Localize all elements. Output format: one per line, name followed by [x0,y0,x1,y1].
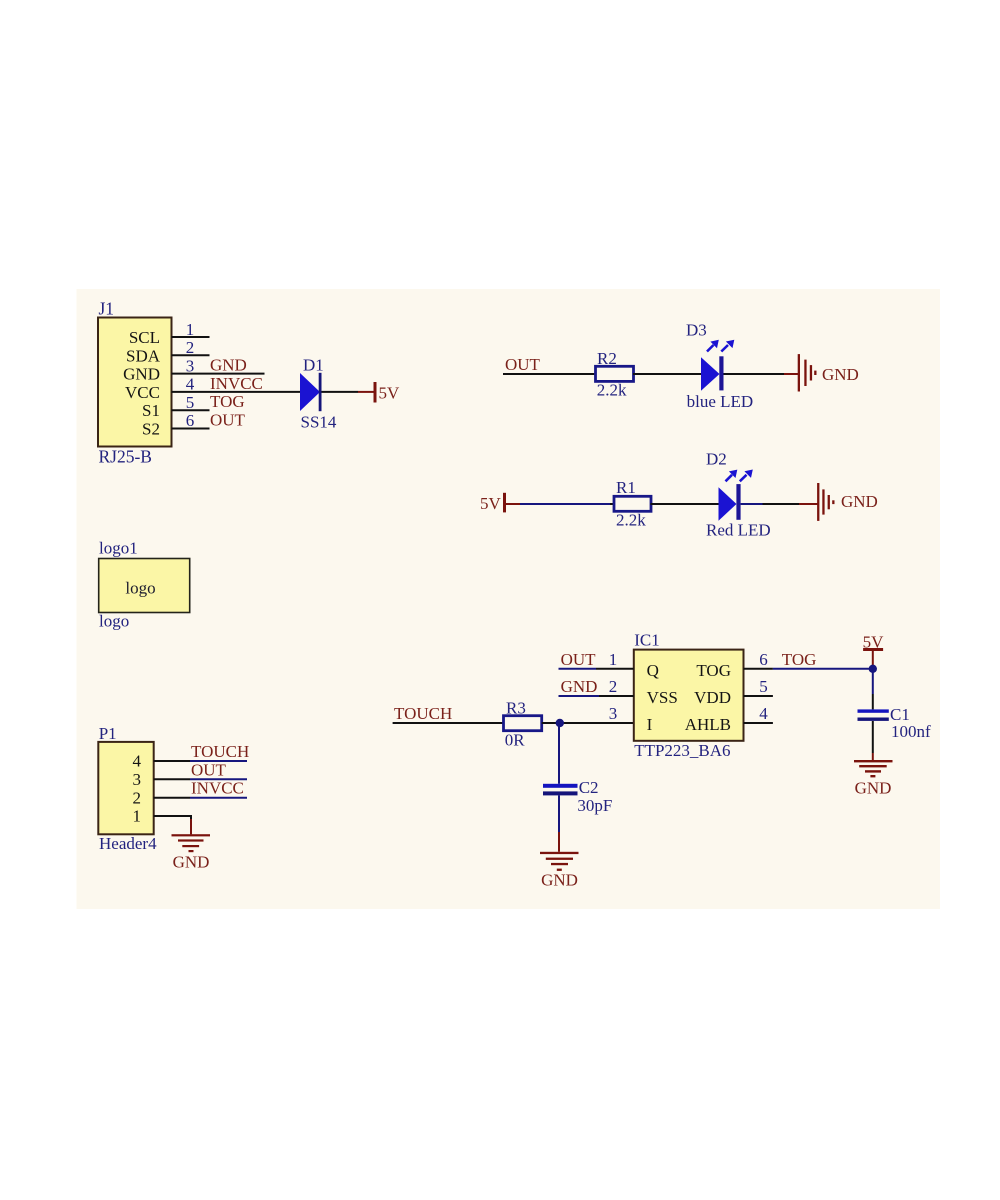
resistor R2 2.2k [596,349,634,400]
svg-text:C2: C2 [579,778,599,797]
svg-text:Header4: Header4 [99,834,157,853]
svg-text:1: 1 [609,650,618,669]
svg-text:5: 5 [186,393,195,412]
svg-text:3: 3 [133,770,142,789]
svg-text:OUT: OUT [210,411,246,430]
svg-text:S2: S2 [142,420,160,439]
wire OUT to R2 [503,373,597,375]
power GND (D3 row) [784,354,859,391]
P1 pin 2 / net INVCC [154,779,247,798]
svg-text:SS14: SS14 [301,413,337,432]
J1 pin 6 / net OUT [172,411,246,431]
IC1 pin 6 / net TOG wire to junction [744,650,873,669]
svg-text:GND: GND [841,492,878,511]
J1 pin 5 / net TOG [172,392,245,412]
svg-text:OUT: OUT [505,355,541,374]
svg-text:VSS: VSS [647,688,678,707]
svg-text:GND: GND [210,356,247,375]
svg-text:OUT: OUT [191,760,227,779]
svg-text:P1: P1 [99,724,117,743]
svg-text:1: 1 [133,807,142,826]
svg-text:INVCC: INVCC [191,779,244,798]
svg-text:3: 3 [609,704,618,723]
svg-text:blue LED: blue LED [687,392,754,411]
svg-text:100nf: 100nf [891,722,931,741]
svg-text:2: 2 [609,677,618,696]
svg-text:GND: GND [123,365,160,384]
svg-text:GND: GND [561,677,598,696]
svg-text:INVCC: INVCC [210,374,263,393]
svg-text:Q: Q [647,661,659,680]
svg-text:TTP223_BA6: TTP223_BA6 [634,741,730,760]
svg-text:5V: 5V [379,384,401,403]
svg-text:VDD: VDD [694,688,731,707]
svg-text:4: 4 [759,704,768,723]
capacitor C2 30pF [543,778,612,815]
svg-text:GND: GND [541,871,578,890]
svg-text:D2: D2 [706,450,727,469]
wire R1 to D2 [651,503,719,505]
svg-text:TOG: TOG [696,661,731,680]
svg-text:logo: logo [99,612,129,631]
svg-text:logo1: logo1 [99,539,138,558]
svg-text:SCL: SCL [129,328,160,347]
power 5V (C1 top) [863,633,885,669]
svg-text:TOG: TOG [210,392,245,411]
IC1 pin 1 / net OUT [559,650,634,669]
svg-text:D1: D1 [303,356,324,375]
connector P1 Header4 [98,724,157,853]
J1 pin 3 / net GND [172,356,265,376]
junction node (TOG/5V/C1) [869,665,877,673]
LED D3 blue LED [686,321,753,412]
resistor R1 2.2k [614,478,651,530]
wire C1 to GND [872,721,874,760]
IC U1 TTP223_BA6 [634,631,744,761]
resistor R3 0R [504,699,542,750]
power GND (C2) [540,852,579,890]
IC1 pin 5 [744,677,773,696]
svg-text:IC1: IC1 [634,631,660,650]
svg-text:6: 6 [186,411,195,430]
wire junction to C1 [872,669,874,710]
svg-text:6: 6 [759,650,768,669]
wire R3 to IC1 pin 3 [542,722,634,724]
wire D1 to 5V [322,391,359,393]
svg-text:Red LED: Red LED [706,521,771,540]
wire D3 to GND [724,373,785,375]
power 5V stub (D1) [358,382,400,403]
svg-text:1: 1 [186,320,195,339]
svg-text:2.2k: 2.2k [616,511,646,530]
J1 pin 4 / net INVCC / wire to D1 [172,374,301,394]
svg-text:VCC: VCC [125,383,160,402]
svg-text:SDA: SDA [126,346,161,365]
IC1 pin 2 / net GND [559,677,634,696]
wire 5V to R1 [520,503,610,505]
svg-text:logo: logo [125,578,155,597]
svg-text:GND: GND [822,365,859,384]
power GND (D2 row) [799,483,878,521]
IC1 pin 4 [744,704,773,723]
diode D1 SS14 [300,356,337,432]
wire TOUCH to R3 [393,722,504,724]
svg-text:2: 2 [133,788,142,807]
wire D2 to GND [741,503,763,505]
svg-text:3: 3 [186,356,195,375]
svg-text:2: 2 [186,338,195,357]
svg-text:5: 5 [759,677,768,696]
wire C2 to GND [558,795,560,851]
J1 pin 2 [172,338,210,357]
power 5V stub (R1 row) [480,493,520,513]
svg-text:TOUCH: TOUCH [191,742,249,761]
svg-text:4: 4 [133,752,142,771]
svg-text:OUT: OUT [561,650,597,669]
capacitor C1 100nf [858,705,932,741]
J1 pin 1 [172,320,210,339]
svg-text:5V: 5V [480,494,502,513]
svg-text:RJ25-B: RJ25-B [99,447,152,467]
svg-text:4: 4 [186,375,195,394]
power GND (P1) [172,834,211,871]
svg-text:GND: GND [173,852,210,871]
svg-text:S1: S1 [142,401,160,420]
P1 pin 1 wire to ground [154,815,191,834]
power GND (C1) [854,760,893,798]
svg-text:TOUCH: TOUCH [394,704,452,723]
svg-text:I: I [647,715,653,734]
logo1 sheet symbol [99,539,190,631]
P1 pin 3 / net OUT [154,760,247,779]
svg-text:D3: D3 [686,321,707,340]
svg-text:2.2k: 2.2k [597,381,627,400]
wire R2 to D3 [633,373,701,375]
wire junction to C2 [558,723,560,784]
svg-text:30pF: 30pF [577,796,612,815]
svg-text:TOG: TOG [782,650,817,669]
P1 pin 4 / net TOUCH [154,742,250,761]
svg-text:GND: GND [855,779,892,798]
svg-text:R1: R1 [616,478,636,497]
junction node (R3/C2/IC1) [556,719,564,727]
LED D2 Red LED [706,450,771,540]
svg-text:AHLB: AHLB [685,715,731,734]
connector J1 [98,299,172,467]
svg-text:J1: J1 [99,299,115,319]
svg-text:0R: 0R [505,731,526,750]
